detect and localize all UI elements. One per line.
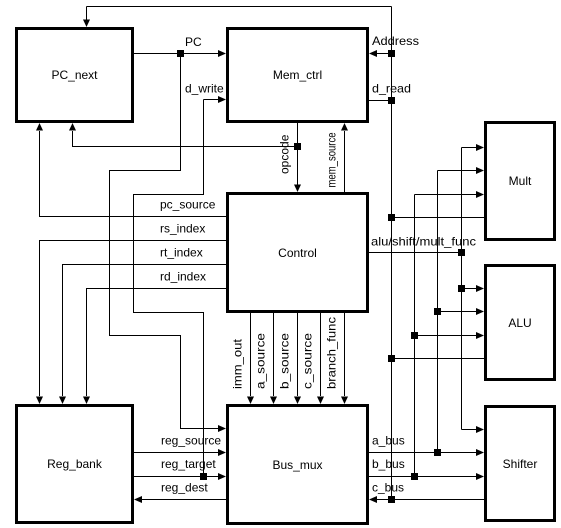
block Mult bbox=[486, 123, 555, 240]
junction a_bus to ALU bbox=[434, 308, 441, 315]
arrowhead reg_source into Bus_mux bbox=[218, 449, 226, 456]
wire reg_dest from Bus_mux to Reg_bank bbox=[142, 499, 226, 501]
label pc_source bbox=[160, 198, 216, 212]
junction PC to staircase bbox=[177, 50, 184, 57]
wire c_bus vertical trunk bbox=[391, 7, 393, 500]
junction func line bbox=[458, 249, 465, 256]
label rs_index bbox=[160, 222, 205, 236]
wire b_bus from Bus_mux to Shifter bbox=[369, 476, 476, 478]
arrowhead PC into Bus_mux bbox=[218, 425, 226, 432]
arrowhead reg_target into Bus_mux bbox=[218, 473, 226, 480]
arrowhead rs_index into Reg_bank bbox=[36, 397, 43, 405]
wire a_bus riser to Mult and ALU bbox=[438, 171, 477, 453]
arrowhead d_write into Mem_ctrl bbox=[218, 96, 226, 103]
wire imm_out from Control to Bus_mux bbox=[250, 313, 252, 396]
wire a_source from Control to Bus_mux bbox=[273, 313, 275, 396]
label c_bus bbox=[372, 481, 404, 495]
svg-text:rd_index: rd_index bbox=[160, 270, 206, 284]
svg-text:PC_next: PC_next bbox=[51, 68, 98, 82]
wire opcode from Mem_ctrl to Control bbox=[297, 123, 299, 185]
wire PC from PC_next to Mem_ctrl bbox=[134, 53, 218, 55]
wire branch_func from Control to Bus_mux bbox=[344, 313, 346, 396]
svg-text:imm_out: imm_out bbox=[231, 338, 245, 389]
svg-text:reg_source: reg_source bbox=[161, 434, 221, 448]
wire a_bus from Bus_mux to Shifter bbox=[369, 452, 476, 454]
junction a_bus riser bbox=[434, 449, 441, 456]
junction Mult out on c_bus bbox=[388, 214, 395, 221]
arrowhead a_source into Bus_mux bbox=[270, 397, 277, 405]
label d_write bbox=[185, 82, 224, 96]
arrowhead reg_dest into Reg_bank bbox=[134, 496, 142, 503]
svg-text:Shifter: Shifter bbox=[503, 457, 538, 471]
svg-text:pc_source: pc_source bbox=[160, 198, 216, 212]
junction ALU out on c_bus bbox=[388, 355, 395, 362]
arrowhead branch_func into Bus_mux bbox=[341, 397, 348, 405]
label imm_out rotated bbox=[231, 338, 245, 389]
label reg_source bbox=[161, 434, 221, 448]
wire c_bus from Mult bbox=[392, 217, 485, 219]
arrowhead b_bus into Shifter bbox=[476, 473, 484, 480]
block Reg_bank bbox=[17, 406, 133, 523]
block Shifter bbox=[486, 407, 555, 521]
wire rd_index from Control to Reg_bank bbox=[87, 289, 227, 397]
junction Address on c_bus bbox=[388, 50, 395, 57]
svg-text:Reg_bank: Reg_bank bbox=[47, 457, 103, 471]
svg-text:b_bus: b_bus bbox=[372, 457, 405, 471]
wire PC staircase to Bus_mux bbox=[110, 54, 219, 429]
wire d_write staircase from reg_target to Mem_ctrl bbox=[134, 100, 219, 477]
svg-text:Mem_ctrl: Mem_ctrl bbox=[273, 68, 322, 82]
svg-text:a_bus: a_bus bbox=[372, 434, 405, 448]
svg-text:alu/shift/mult_func: alu/shift/mult_func bbox=[371, 235, 476, 249]
arrowhead PC into Mem_ctrl bbox=[218, 50, 226, 57]
svg-text:Mult: Mult bbox=[509, 174, 532, 188]
svg-text:PC: PC bbox=[185, 35, 202, 49]
svg-text:Control: Control bbox=[278, 246, 317, 260]
wire mem_source from Control to Mem_ctrl bbox=[344, 131, 346, 192]
wire c_bus bottom into Bus_mux and Shifter bbox=[377, 499, 484, 501]
label PC bbox=[185, 35, 202, 49]
label reg_target bbox=[161, 457, 216, 471]
svg-text:branch_func: branch_func bbox=[325, 317, 339, 389]
svg-text:reg_target: reg_target bbox=[161, 457, 216, 471]
arrowhead rt_index into Reg_bank bbox=[59, 397, 66, 405]
junction func to ALU bbox=[458, 285, 465, 292]
arrowhead a_bus into Shifter bbox=[476, 449, 484, 456]
svg-text:a_source: a_source bbox=[254, 333, 268, 389]
svg-text:rt_index: rt_index bbox=[160, 246, 203, 260]
junction d_read on c_bus bbox=[388, 97, 395, 104]
arrowhead func into ALU bbox=[476, 285, 484, 292]
block Bus_mux bbox=[228, 406, 368, 524]
label opcode rotated bbox=[278, 134, 292, 174]
label rd_index bbox=[160, 270, 206, 284]
block Control bbox=[228, 194, 368, 312]
svg-text:mem_source: mem_source bbox=[325, 132, 339, 187]
wire c_bus from ALU bbox=[392, 358, 485, 360]
junction opcode branch bbox=[294, 143, 301, 150]
label b_source rotated bbox=[278, 333, 292, 389]
wire c_bus top loop to PC_next bbox=[87, 7, 392, 21]
junction b_bus riser bbox=[411, 473, 418, 480]
svg-text:Address: Address bbox=[372, 34, 419, 48]
arrowhead into PC_next top bbox=[83, 20, 90, 28]
arrowhead imm_out into Bus_mux bbox=[247, 397, 254, 405]
svg-text:b_source: b_source bbox=[278, 333, 292, 389]
label c_source rotated bbox=[301, 333, 315, 389]
arrowhead a_bus into ALU bbox=[476, 308, 484, 315]
wire Address into Mem_ctrl bbox=[377, 53, 392, 55]
svg-text:opcode: opcode bbox=[278, 134, 292, 174]
arrowhead opcode into Control top bbox=[294, 185, 301, 193]
arrowhead func into Shifter bbox=[476, 426, 484, 433]
wire d_read from Mem_ctrl bbox=[369, 100, 392, 102]
svg-text:c_bus: c_bus bbox=[372, 481, 404, 495]
wire b_bus riser to Mult and ALU bbox=[415, 195, 477, 477]
arrowhead b_bus into ALU bbox=[476, 332, 484, 339]
arrowhead b_source into Bus_mux bbox=[294, 397, 301, 405]
arrowhead c_bus into Bus_mux bbox=[369, 496, 377, 503]
block PC_next bbox=[17, 29, 133, 122]
label branch_func rotated bbox=[325, 317, 339, 389]
arrowhead b_bus into Mult bbox=[476, 191, 484, 198]
wire c_source from Control to Bus_mux bbox=[320, 313, 322, 396]
svg-text:rs_index: rs_index bbox=[160, 222, 205, 236]
wire alu/shift/mult_func from Control bbox=[369, 252, 462, 254]
arrowhead opcode branch into PC_next bottom bbox=[69, 123, 76, 131]
label alu/shift/mult_func bbox=[371, 235, 476, 249]
svg-text:d_write: d_write bbox=[185, 82, 224, 96]
wire reg_source from Reg_bank to Bus_mux bbox=[134, 452, 218, 454]
wire opcode branch to PC_next bbox=[73, 131, 298, 147]
svg-text:reg_dest: reg_dest bbox=[161, 481, 208, 495]
arrowhead func into Mult bbox=[476, 144, 484, 151]
arrowhead Address into Mem_ctrl bbox=[369, 50, 377, 57]
arrowhead rd_index into Reg_bank bbox=[83, 397, 90, 405]
svg-text:Bus_mux: Bus_mux bbox=[272, 458, 322, 472]
wire b_source from Control to Bus_mux bbox=[297, 313, 299, 396]
label a_bus bbox=[372, 434, 405, 448]
wire func riser to Mult ALU Shifter bbox=[462, 148, 477, 430]
label Address bbox=[372, 34, 419, 48]
label reg_dest bbox=[161, 481, 208, 495]
label rt_index bbox=[160, 246, 203, 260]
label a_source rotated bbox=[254, 333, 268, 389]
block ALU bbox=[486, 266, 555, 380]
svg-text:d_read: d_read bbox=[372, 82, 411, 96]
label b_bus bbox=[372, 457, 405, 471]
wire rt_index from Control to Reg_bank bbox=[63, 265, 227, 397]
label mem_source rotated bbox=[325, 132, 339, 187]
junction c_bus bottom bbox=[388, 496, 395, 503]
arrowhead a_bus into Mult bbox=[476, 167, 484, 174]
junction b_bus to ALU bbox=[411, 332, 418, 339]
svg-text:c_source: c_source bbox=[301, 333, 315, 389]
wire reg_target from Reg_bank to Bus_mux bbox=[134, 476, 218, 478]
label d_read bbox=[372, 82, 411, 96]
arrowhead mem_source into Mem_ctrl bottom bbox=[341, 123, 348, 131]
wire rs_index from Control to Reg_bank bbox=[40, 241, 227, 397]
junction d_write on reg_target bbox=[200, 473, 207, 480]
wire pc_source from Control to PC_next bbox=[40, 131, 227, 217]
block Mem_ctrl bbox=[228, 29, 368, 122]
svg-text:ALU: ALU bbox=[508, 316, 531, 330]
arrowhead pc_source into PC_next bottom bbox=[36, 123, 43, 131]
arrowhead c_source into Bus_mux bbox=[317, 397, 324, 405]
